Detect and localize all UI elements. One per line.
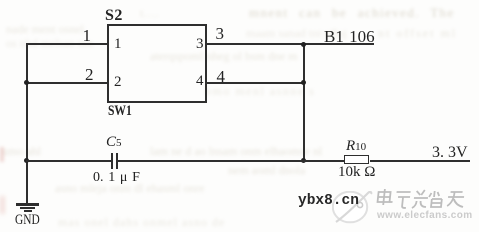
wire pin4: [206, 82, 304, 84]
junction right pin3: [301, 42, 306, 47]
wire right vertical: [303, 43, 305, 162]
watermark logo: [332, 191, 374, 224]
label SW1: [108, 103, 132, 120]
wire left vertical: [26, 43, 28, 204]
wire main middle: [118, 160, 345, 162]
net label 2: [85, 65, 94, 85]
label GND: [15, 212, 40, 229]
net label 1: [83, 26, 92, 46]
pin 4 (inside): [196, 73, 204, 90]
watermark ybx8.cn: [298, 193, 359, 209]
pin 2 (inside): [114, 74, 122, 91]
pin 3 (inside): [196, 36, 204, 53]
watermark url: [377, 210, 473, 221]
watermark chinese characters: [375, 188, 467, 210]
label C5: [106, 134, 122, 151]
resistor R10: [344, 155, 369, 164]
junction left pin2: [24, 80, 29, 85]
wire main right: [370, 160, 470, 162]
pin 1 (inside): [114, 36, 122, 53]
junction right main: [301, 158, 306, 163]
junction right pin4: [301, 80, 306, 85]
net label 4: [217, 67, 226, 87]
wire pin2: [26, 82, 107, 84]
value 0.1uF: [93, 170, 140, 186]
value 10k ohm: [338, 164, 375, 181]
wire pin1: [26, 43, 107, 45]
net label 3.3V: [432, 144, 468, 162]
net label 3: [216, 24, 225, 44]
label S2: [105, 7, 123, 25]
junction left main: [24, 158, 29, 163]
wire main left: [26, 160, 111, 162]
capacitor C5: [111, 153, 113, 169]
label R10: [346, 138, 366, 155]
net label B1 106: [324, 27, 375, 47]
wire pin3: [206, 43, 374, 45]
ground: [16, 203, 39, 205]
switch SW1: [107, 24, 207, 103]
